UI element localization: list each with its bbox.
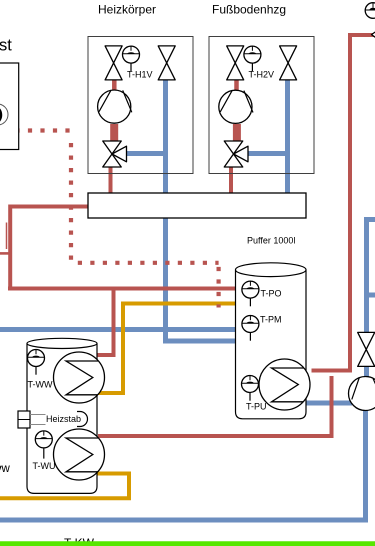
sensor T-H1V bbox=[123, 46, 140, 71]
wire blue riser inside Heizkoerper box bbox=[163, 79, 168, 193]
valve at top right edge (cut off) bbox=[372, 29, 375, 40]
wire red Fussbodenhzg pump to mixer bbox=[233, 124, 241, 141]
buffer tank Puffer 1000l bbox=[236, 263, 307, 419]
wire blue drop from distributor to buffer tank bbox=[166, 218, 237, 341]
box heat source at left edge (cut off) bbox=[0, 63, 19, 150]
wire blue mixer branch Heizkoerper bbox=[127, 151, 166, 156]
valve FB return bbox=[280, 46, 297, 80]
sensor T-PM bbox=[242, 316, 259, 341]
wire blue buffer tank to pump P4 bbox=[304, 401, 352, 406]
valve HK return bbox=[158, 46, 175, 80]
svg-text:T-H1V: T-H1V bbox=[127, 70, 153, 80]
valve FB supply bbox=[227, 46, 244, 80]
pump HK bbox=[98, 90, 132, 123]
3-way mixer valve FB bbox=[224, 141, 248, 167]
wire red stub at left edge bbox=[0, 252, 12, 255]
wire blue mixer branch Fussbodenhzg bbox=[249, 151, 288, 156]
pump P4 right side bbox=[349, 377, 375, 411]
svg-text:Heizstab: Heizstab bbox=[46, 414, 81, 424]
svg-text:T-PU: T-PU bbox=[246, 402, 267, 412]
wire red supply into distributor bbox=[10, 205, 88, 209]
heat exchanger coil bottom (WU) bbox=[54, 429, 105, 480]
sensor T-H2V bbox=[244, 46, 261, 71]
wire blue return main at y=329 bbox=[0, 327, 236, 332]
svg-text:T-PM: T-PM bbox=[260, 315, 282, 325]
wire blue inlet from right edge to valve V3 bbox=[367, 220, 375, 334]
svg-text:Heizkörper: Heizkörper bbox=[98, 3, 156, 17]
valve V3 right side bbox=[358, 332, 375, 366]
wire green cold water line bbox=[0, 541, 375, 546]
Heizstab electric heater element bbox=[18, 411, 88, 428]
svg-text:st: st bbox=[0, 37, 12, 55]
wire red Fussbodenhzg valve to pump bbox=[234, 79, 239, 90]
wire dotted control line from left box to storage area bbox=[15, 128, 71, 132]
svg-text:T-H2V: T-H2V bbox=[249, 70, 275, 80]
sensor T-PU bbox=[242, 376, 259, 401]
wire orange buffer mid to boiler coil top bbox=[98, 304, 236, 394]
wire red Heizkoerper pump to mixer bbox=[110, 124, 118, 141]
wire orange boiler coil bottom loop bbox=[0, 474, 129, 499]
svg-text:Fußbodenhzg: Fußbodenhzg bbox=[212, 3, 286, 17]
svg-text:Puffer 1000l: Puffer 1000l bbox=[247, 236, 295, 246]
box heating circuit 1 (Heizkoerper) bbox=[88, 37, 193, 174]
valve HK supply bbox=[105, 46, 122, 80]
svg-text:T-PO: T-PO bbox=[261, 289, 282, 299]
box distributor manifold bbox=[88, 193, 306, 218]
heat exchanger coil top (WW) bbox=[54, 352, 105, 403]
svg-text:T-WU: T-WU bbox=[33, 461, 56, 471]
sensor at top right (cut off) bbox=[365, 3, 375, 19]
wire blue from pump P4 down and along bottom bbox=[0, 408, 366, 520]
heat exchanger coil in buffer tank bbox=[259, 359, 310, 410]
sensor T-WU bbox=[35, 431, 52, 459]
3-way mixer valve HK bbox=[103, 141, 127, 167]
pump in left box (cut off) bbox=[0, 104, 8, 125]
box heating circuit 2 (Fussbodenhzg) bbox=[209, 37, 314, 174]
wire red branch down to boiler top bbox=[97, 289, 114, 356]
wire red Fussbodenhzg mixer to distributor bbox=[229, 167, 233, 193]
wire red vertical at left bbox=[8, 205, 12, 289]
boiler tank left bbox=[27, 338, 97, 493]
wire blue riser inside Fussbodenhzg box bbox=[285, 79, 290, 193]
sensor T-WW bbox=[28, 350, 45, 375]
wire red Heizkoerper mixer to distributor bbox=[109, 167, 113, 193]
wire blue stub to right edge bbox=[367, 293, 375, 298]
wire red from right edge down to buffer top right bbox=[312, 35, 375, 371]
pump FB bbox=[219, 90, 253, 123]
svg-text:w: w bbox=[1, 463, 11, 475]
wire blue valve V3 to pump P4 bbox=[364, 367, 369, 379]
wire red riser right of boiler bbox=[98, 376, 332, 436]
svg-text:T-WW: T-WW bbox=[28, 380, 53, 390]
wire red Heizkoerper valve to pump bbox=[112, 79, 117, 90]
wire red supply to buffer tank bbox=[8, 287, 236, 291]
sensor T-PO bbox=[242, 281, 259, 306]
